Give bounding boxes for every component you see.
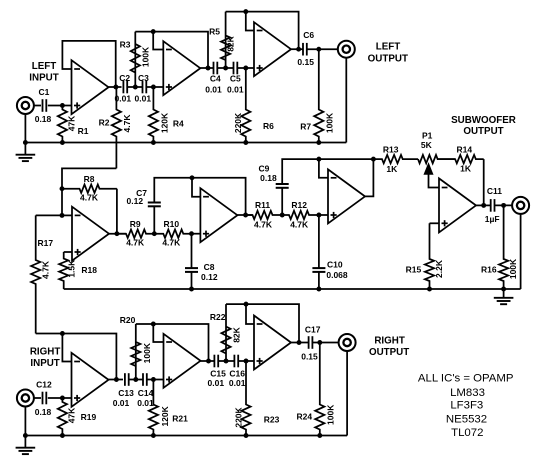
op-amp U5 (filter 1) (200, 188, 237, 242)
junction R13 left node (371, 157, 376, 162)
svg-text:4.7K: 4.7K (41, 260, 51, 279)
junction R8 left (60, 186, 65, 191)
output jack J3 (subwoofer) (512, 197, 529, 214)
junction rail J4 ground (23, 433, 28, 438)
svg-text:R5: R5 (209, 26, 220, 36)
resistor R16 (499, 205, 508, 289)
junction U2 minus stub on feedback (151, 29, 156, 34)
capacitor C13 (125, 373, 129, 386)
wire J1 to C1 (34, 105, 41, 107)
svg-text:INPUT: INPUT (29, 73, 58, 84)
junction U9 minus stub on feedback (151, 322, 156, 327)
op-amp U8 (72, 353, 109, 407)
junction C16-R23 (244, 359, 249, 364)
svg-text:R15: R15 (406, 264, 422, 274)
junction rail C10 (316, 287, 321, 292)
ground symbol (top left) (16, 155, 36, 161)
junction rail J1 ground (23, 140, 28, 145)
resistor R20 (131, 324, 140, 380)
svg-text:OUTPUT: OUTPUT (369, 347, 409, 358)
junction C14-R21 (151, 377, 156, 382)
wire J3 ground lead (520, 214, 522, 289)
wire U4 output (109, 233, 126, 235)
capacitor C10 (312, 268, 325, 272)
svg-text:1K: 1K (386, 164, 398, 174)
svg-text:82K: 82K (232, 326, 242, 342)
resistor R13 (373, 155, 418, 163)
op-amp U6 (filter 2) (328, 169, 365, 223)
op-amp U3 (254, 22, 291, 76)
op-amp U7 (sub output) (439, 178, 476, 232)
junction C13-C14 / R20 (133, 377, 138, 382)
wire U7 plus stub (430, 222, 440, 224)
junction rail R15 (427, 287, 432, 292)
junction U5 minus stub (190, 175, 195, 180)
op-amp U2 (163, 41, 200, 95)
svg-text:4.7K: 4.7K (126, 238, 145, 248)
junction rail R1 (60, 140, 65, 145)
svg-text:C1: C1 (38, 87, 49, 97)
wire P1 wiper to U7 minus (429, 172, 440, 188)
svg-text:82K: 82K (226, 35, 236, 51)
svg-text:R13: R13 (383, 145, 399, 155)
wire U9 output (201, 360, 215, 362)
svg-text:1µF: 1µF (485, 214, 500, 224)
wire C16 to U10 + input (238, 360, 254, 362)
wire R22 top to U10 output (feedback) (226, 304, 299, 342)
wire C8 top lead (191, 234, 193, 268)
wire U10 output to C17 (291, 342, 309, 344)
capacitor C2 (123, 81, 127, 94)
svg-text:NE5532: NE5532 (446, 414, 487, 426)
junction node B (R10-C8-U5+) (189, 231, 194, 236)
input jack J4 (right input) (17, 390, 34, 407)
wire U5 minus stub (192, 178, 200, 197)
svg-text:R22: R22 (210, 312, 226, 322)
wire C7 top to U5 minus node (154, 178, 245, 215)
junction U9 output node (206, 359, 211, 364)
junction R17 joins U8 feedback (60, 331, 65, 336)
wire R17 to U7 feedback (36, 333, 63, 335)
svg-text:R21: R21 (172, 414, 188, 424)
junction rail R4 (151, 140, 156, 145)
svg-text:LM833: LM833 (450, 387, 485, 399)
svg-text:0.18: 0.18 (260, 173, 277, 183)
svg-text:0.15: 0.15 (297, 57, 314, 67)
junction U5 output node (243, 213, 248, 218)
junction U7 output node (481, 203, 486, 208)
wire U8 feedback loop (62, 334, 116, 380)
svg-text:120K: 120K (160, 405, 170, 426)
svg-text:R3: R3 (120, 39, 131, 49)
capacitor C14 (143, 373, 147, 386)
svg-text:OUTPUT: OUTPUT (463, 126, 503, 137)
resistor R15 (425, 223, 434, 289)
wire U3 minus stub (246, 12, 254, 31)
wire C10 bottom lead (318, 272, 320, 289)
capacitor C8 (185, 268, 198, 272)
potentiometer P1 wiper arrow (424, 164, 433, 175)
wire C13 to C14 (129, 379, 143, 381)
wire node D to U6 plus (319, 214, 328, 216)
junction C2-C3 / R3 (133, 85, 138, 90)
svg-text:120K: 120K (160, 112, 170, 133)
junction R7 top (316, 47, 321, 52)
svg-text:R16: R16 (481, 264, 497, 274)
resistor R19 (58, 398, 67, 436)
junction U1 output node (113, 85, 118, 90)
resistor R9 (117, 230, 154, 238)
svg-text:1.5K: 1.5K (67, 259, 77, 278)
junction rail C8 (189, 287, 194, 292)
junction node D (R12-C10-U6+) (316, 213, 321, 218)
svg-text:47K: 47K (67, 407, 77, 423)
svg-text:C14: C14 (138, 388, 154, 398)
wire ground stem (top left) (24, 143, 26, 155)
wire U4 plus stub (64, 251, 72, 253)
svg-text:C12: C12 (36, 379, 52, 389)
svg-text:C11: C11 (487, 186, 502, 196)
junction rail R16-ground (501, 287, 506, 292)
resistor R8 (62, 185, 117, 193)
svg-text:R18: R18 (81, 265, 97, 275)
svg-text:0.12: 0.12 (127, 196, 144, 206)
wire U7 output to C11 (476, 204, 491, 206)
svg-text:0.01: 0.01 (137, 398, 154, 408)
junction C3-R4 (151, 85, 156, 90)
ground symbol (middle right) (494, 298, 514, 304)
wire U10 minus stub (246, 304, 254, 324)
wire U1 feedback loop (62, 41, 115, 87)
svg-text:LEFT: LEFT (376, 42, 401, 53)
capacitor C11 (491, 199, 495, 212)
wire C4 to C5 (217, 67, 233, 69)
junction rail R23 (244, 433, 249, 438)
capacitor C6 (303, 43, 307, 56)
svg-text:C5: C5 (230, 74, 241, 84)
svg-text:RIGHT: RIGHT (30, 346, 60, 357)
wire J5 ground lead (346, 351, 348, 436)
svg-text:4.7K: 4.7K (80, 192, 99, 202)
junction rail R19 (60, 433, 65, 438)
wire C9 top to U6 feedback line (282, 159, 373, 184)
capacitor C15 (214, 355, 218, 368)
junction U2 output node (206, 66, 211, 71)
resistor R3 (131, 32, 140, 87)
wire C15 to C16 (218, 360, 234, 362)
svg-text:1K: 1K (460, 164, 472, 174)
svg-text:C17: C17 (305, 324, 321, 334)
wire R2 to summing node (62, 168, 116, 215)
wire J1 ground lead (24, 114, 26, 143)
svg-text:C13: C13 (118, 388, 134, 398)
svg-text:R24: R24 (297, 412, 313, 422)
resistor R1 (58, 106, 67, 143)
resistor R10 (154, 230, 191, 238)
svg-text:0.18: 0.18 (35, 114, 52, 124)
junction rail R6 (243, 140, 248, 145)
wire top ground rail (25, 142, 346, 144)
svg-text:100K: 100K (324, 112, 334, 133)
svg-text:0.01: 0.01 (135, 94, 152, 104)
resistor R14 (438, 155, 484, 163)
ground symbol (bottom left) (16, 448, 36, 454)
wire J4 ground lead (24, 406, 26, 435)
wire C5 to U3 + input (237, 67, 254, 69)
svg-text:ALL IC's = OPAMP: ALL IC's = OPAMP (418, 373, 514, 385)
capacitor C17 (309, 336, 313, 349)
svg-text:100K: 100K (508, 258, 518, 279)
svg-text:0.068: 0.068 (326, 270, 348, 280)
junction R1 top (60, 103, 65, 108)
svg-text:47K: 47K (67, 115, 77, 131)
svg-text:R1: R1 (78, 126, 89, 136)
wire U6 output to feedback (365, 159, 373, 196)
potentiometer P1 track (418, 155, 455, 163)
wire J2 ground lead (345, 58, 347, 143)
capacitor C5 (234, 62, 238, 75)
junction rail R24 (317, 433, 322, 438)
svg-text:4.7K: 4.7K (162, 238, 181, 248)
wire bottom ground rail (25, 435, 347, 437)
svg-text:C8: C8 (204, 262, 215, 272)
junction R19 top (60, 396, 65, 401)
resistor R21 (149, 380, 158, 436)
junction C5-R6 (243, 66, 248, 71)
wire U2 output (200, 67, 213, 69)
junction U10 minus stub on feedback (244, 302, 249, 307)
junction summing node (U4 minus) (60, 213, 65, 218)
wire C1 to U1 + input (48, 105, 72, 107)
resistor R18 (59, 252, 68, 289)
svg-text:0.01: 0.01 (208, 378, 225, 388)
junction C4-C5 / R5 (223, 66, 228, 71)
op-amp U1 (72, 60, 109, 114)
svg-text:4.7K: 4.7K (290, 220, 309, 230)
wire U3 output to C6 (291, 48, 303, 50)
svg-text:R19: R19 (81, 412, 97, 422)
svg-text:0.01: 0.01 (227, 85, 244, 95)
wire U5 output (237, 214, 252, 216)
resistor R5 (221, 12, 230, 68)
resistor R11 (246, 211, 283, 219)
svg-text:R11: R11 (255, 200, 270, 210)
svg-text:RIGHT: RIGHT (374, 335, 404, 346)
output jack J2 (left output) (338, 41, 355, 58)
svg-text:R2: R2 (99, 117, 110, 127)
resistor R17 (31, 215, 40, 333)
svg-text:4.7K: 4.7K (122, 114, 132, 133)
capacitor C9 (276, 184, 289, 188)
capacitor C7 (148, 203, 161, 207)
wire C6 to J2 (307, 48, 338, 50)
wire node B to U5 plus (192, 233, 201, 235)
resistor R2 (112, 87, 121, 168)
svg-text:0.18: 0.18 (35, 407, 52, 417)
output jack J5 (right output) (339, 334, 356, 351)
input jack J1 (left input) (17, 97, 34, 114)
resistor R4 (149, 87, 158, 143)
junction R24 top (317, 340, 322, 345)
wire R20 top to U9 output (feedback) (136, 324, 209, 361)
svg-text:OUTPUT: OUTPUT (368, 53, 408, 64)
svg-text:TL072: TL072 (451, 427, 483, 439)
svg-text:0.12: 0.12 (201, 272, 218, 282)
junction node C (R11-R12-C9) (280, 213, 285, 218)
wire summing node to R17 (36, 214, 62, 216)
svg-text:220K: 220K (233, 406, 243, 427)
svg-text:R7: R7 (300, 122, 311, 132)
wire ground stem (middle right) (503, 289, 505, 298)
svg-text:R23: R23 (264, 415, 280, 425)
svg-text:R14: R14 (457, 145, 473, 155)
junction U3 minus stub on feedback (243, 9, 248, 14)
svg-text:C6: C6 (303, 30, 314, 40)
svg-text:R12: R12 (291, 200, 307, 210)
junction R16 top (501, 203, 506, 208)
capacitor C4 (214, 62, 218, 75)
svg-text:C9: C9 (258, 164, 269, 174)
capacitor C16 (234, 355, 238, 368)
junction C15-C16 / R22 (224, 359, 229, 364)
svg-text:0.01: 0.01 (229, 378, 246, 388)
svg-text:C4: C4 (210, 74, 221, 84)
op-amp U4 (summing) (72, 207, 109, 261)
svg-text:100K: 100K (326, 404, 336, 425)
junction U4 output node (114, 231, 119, 236)
wire R5 top to U3 output (feedback) (226, 12, 299, 50)
svg-text:4.7K: 4.7K (254, 220, 273, 230)
svg-text:R10: R10 (164, 219, 180, 229)
wire C9 bottom to node C (281, 188, 283, 215)
svg-text:R20: R20 (120, 315, 136, 325)
svg-text:INPUT: INPUT (30, 358, 59, 369)
wire U6 minus stub (319, 159, 328, 178)
junction U8 output node (114, 377, 119, 382)
svg-text:100K: 100K (141, 46, 151, 67)
svg-text:5K: 5K (421, 140, 433, 150)
wire C10 top lead (318, 215, 320, 268)
svg-text:2.2K: 2.2K (434, 259, 444, 278)
op-amp U10 (254, 316, 291, 370)
wire R8 right to U4 output (116, 189, 118, 234)
svg-text:0.01: 0.01 (205, 85, 222, 95)
wire C17 to J5 (312, 342, 338, 344)
wire R14 to U7 output node (483, 159, 485, 205)
capacitor C1 (43, 99, 47, 112)
svg-text:0.01: 0.01 (113, 398, 130, 408)
wire C14 to U9 + input (147, 379, 164, 381)
wire J4 to C12 (34, 397, 41, 399)
resistor R24 (315, 343, 324, 436)
resistor R22 (221, 304, 230, 361)
wire C2 to C3 (127, 86, 142, 88)
junction U6 minus stub on feedback (316, 157, 321, 162)
svg-text:C2: C2 (119, 73, 130, 83)
wire C11 to J3 (495, 204, 513, 206)
wire C12 to U8 + input (48, 397, 72, 399)
svg-text:0.01: 0.01 (115, 94, 132, 104)
svg-text:LF3F3: LF3F3 (450, 400, 483, 412)
svg-text:R9: R9 (130, 219, 141, 229)
capacitor C3 (143, 81, 147, 94)
svg-text:0.15: 0.15 (301, 352, 318, 362)
svg-text:C3: C3 (138, 73, 149, 83)
wire ground stem (bottom left) (24, 436, 26, 448)
op-amp U9 (164, 334, 201, 388)
capacitor C12 (43, 392, 47, 405)
svg-text:R8: R8 (84, 174, 95, 184)
resistor R6 (241, 68, 250, 143)
wire C3 to U2 + input (146, 86, 163, 88)
wire C7 bottom to node A (153, 206, 155, 233)
junction rail R21 (151, 433, 156, 438)
svg-text:LEFT: LEFT (32, 61, 57, 72)
svg-text:R4: R4 (173, 118, 184, 128)
wire U9 minus stub (153, 324, 163, 342)
svg-text:R6: R6 (263, 121, 274, 131)
svg-text:C10: C10 (327, 259, 343, 269)
wire U8 output (109, 379, 124, 381)
svg-text:SUBWOOFER: SUBWOOFER (451, 115, 516, 126)
resistor R12 (282, 211, 319, 219)
wire middle ground rail (64, 288, 521, 290)
wire R3 top to U2 output (feedback) (135, 32, 208, 68)
resistor R7 (314, 49, 323, 142)
resistor R23 (241, 361, 250, 436)
junction rail R7 (316, 140, 321, 145)
svg-text:100K: 100K (142, 342, 152, 363)
junction node A (R9-R10-C7) (152, 231, 157, 236)
junction U3 output node (296, 47, 301, 52)
wire C8 bottom lead (191, 272, 193, 289)
wire summing node to U4 minus (62, 214, 72, 216)
wire U1 output (109, 86, 122, 88)
svg-text:220K: 220K (233, 112, 243, 133)
wire U2 minus stub (153, 32, 163, 50)
svg-text:R17: R17 (38, 238, 54, 248)
junction U10 output node (297, 340, 302, 345)
